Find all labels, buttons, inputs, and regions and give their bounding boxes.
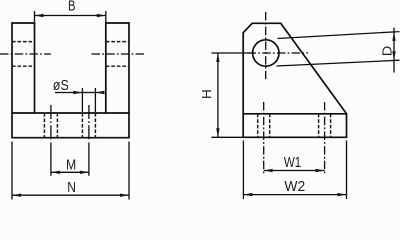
dim N dimension line bbox=[12, 194, 129, 196]
svg-text:D: D bbox=[380, 46, 394, 57]
dim H extension line bottom bbox=[211, 136, 243, 138]
dim W2 extension line left bbox=[242, 141, 244, 200]
left view: left post top edge bbox=[12, 22, 35, 24]
dim D dimension line bbox=[393, 28, 395, 73]
left view: hole hidden line lower, right post bbox=[106, 65, 129, 67]
left view: outer left edge bbox=[11, 23, 13, 138]
dim W2 dimension line bbox=[243, 194, 346, 196]
dim H dimension line bbox=[217, 53, 219, 137]
dim M extension line left bbox=[50, 143, 52, 176]
right view: base hole 2 left hidden edge bbox=[318, 114, 320, 138]
right view: plate left edge bbox=[242, 33, 244, 114]
dimension lines and extension lines bbox=[12, 11, 400, 200]
dim W2 extension line right bbox=[346, 141, 348, 200]
svg-text:W1: W1 bbox=[284, 154, 301, 171]
dim B dimension line bbox=[35, 15, 106, 17]
right view: base hole 2 right hidden edge bbox=[330, 114, 332, 138]
dim N extension line left bbox=[11, 142, 13, 200]
svg-text:W2: W2 bbox=[284, 178, 305, 195]
dim W1 dimension line bbox=[264, 170, 325, 172]
dim D extension line top bbox=[278, 32, 400, 39]
left view: base bottom edge bbox=[12, 137, 129, 139]
right view: base hole 2 centerline bbox=[324, 102, 326, 174]
dim W2 arrow right bbox=[338, 193, 347, 196]
left view: right post top edge bbox=[106, 22, 129, 24]
dim W1 arrow left bbox=[264, 169, 273, 172]
right view: base hole 1 left hidden edge bbox=[257, 114, 259, 138]
hidden (dashed) lines bbox=[12, 42, 331, 138]
dim D arrow bottom bbox=[392, 51, 395, 60]
dim B extension line left bbox=[34, 11, 36, 26]
dim oS extension line left bbox=[81, 88, 83, 112]
right view: base top edge bbox=[243, 113, 346, 115]
svg-text:H: H bbox=[200, 89, 214, 99]
dim oS extension line right bbox=[94, 88, 96, 112]
right view: pivot hole circle bbox=[253, 40, 279, 66]
right view: base hole 1 right hidden edge bbox=[269, 114, 271, 138]
svg-text:øS: øS bbox=[53, 78, 69, 94]
left view: hole hidden line lower, left post bbox=[12, 65, 35, 67]
right view: base right edge bbox=[346, 114, 348, 138]
left view: base hole 2 centerline bbox=[88, 105, 90, 142]
left view: left post inner edge bbox=[34, 23, 36, 113]
left view: outer right edge bbox=[128, 23, 130, 138]
dim N arrow left bbox=[12, 194, 21, 197]
dim M arrow left bbox=[51, 171, 60, 174]
dim M arrow right bbox=[80, 171, 89, 174]
dim B arrow right bbox=[97, 14, 106, 17]
dimension labels bbox=[53, 0, 395, 196]
dim W2 arrow left bbox=[243, 193, 252, 196]
dim H arrow top bbox=[216, 53, 219, 62]
dim D arrow top bbox=[392, 32, 395, 41]
dim oS arrow left (outside, pointing right) bbox=[73, 91, 82, 94]
dim oS arrow right (outside, pointing left) bbox=[95, 91, 104, 94]
right view: top edge bbox=[252, 22, 281, 24]
dim N arrow right bbox=[120, 194, 129, 197]
dim D extension line bottom bbox=[277, 60, 400, 66]
right view: base hole 1 centerline bbox=[263, 102, 265, 174]
left view: hole axis centerline right bbox=[92, 53, 147, 55]
right view: top-left chamfer bbox=[243, 23, 252, 32]
left view: base top edge bbox=[12, 112, 129, 114]
left view: hole axis centerline left bbox=[0, 53, 51, 55]
left view: base hole 1 centerline bbox=[50, 105, 52, 142]
dim M extension line right bbox=[88, 143, 90, 176]
left view: base hole 2 right edge bbox=[94, 113, 96, 138]
svg-text:N: N bbox=[67, 179, 76, 196]
dim B arrow left bbox=[35, 14, 44, 17]
dim W1 arrow right bbox=[316, 169, 325, 172]
left view: base hole 2 left edge bbox=[81, 113, 83, 138]
dim B extension line right bbox=[105, 11, 107, 26]
right view: pivot hole vertical centerline bbox=[265, 12, 267, 81]
dim H extension line top bbox=[211, 52, 252, 54]
left view: hole hidden line upper, right post bbox=[106, 41, 129, 43]
dim N extension line right bbox=[128, 142, 130, 200]
left view: base hole 1 left edge bbox=[43, 113, 45, 138]
left view: right post inner edge bbox=[105, 23, 107, 113]
right view: hypotenuse bbox=[281, 23, 347, 114]
dim H arrow bottom bbox=[216, 128, 219, 137]
dim oS leader line bbox=[55, 92, 104, 94]
right view: base bottom edge bbox=[243, 136, 346, 138]
centerlines (dash-dot) bbox=[0, 12, 325, 174]
right view: pivot hole horizontal centerline bbox=[248, 52, 309, 54]
svg-text:B: B bbox=[68, 0, 76, 15]
left view: hole hidden line upper, left post bbox=[12, 41, 35, 43]
dim M dimension line bbox=[51, 171, 89, 173]
left view: base hole 1 right edge bbox=[56, 113, 58, 138]
right view: base left edge bbox=[242, 114, 244, 138]
svg-text:M: M bbox=[66, 156, 76, 173]
arrowheads bbox=[12, 14, 396, 197]
